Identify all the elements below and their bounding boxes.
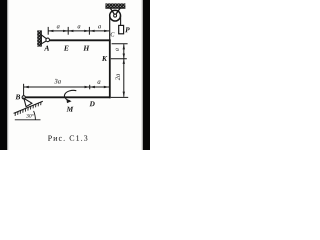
scan gutter right bar — [143, 0, 150, 150]
label B — [15, 94, 20, 99]
pin A circle — [46, 38, 50, 42]
vertical member C-corner — [109, 39, 111, 98]
top beam A-C — [49, 39, 110, 41]
pulley bracket — [110, 8, 115, 15]
hinge circle B — [22, 96, 25, 99]
label 30deg — [26, 114, 33, 118]
rope right (pulley to load) — [120, 16, 122, 26]
labels a a a — [57, 25, 60, 28]
label A — [44, 46, 49, 51]
wall at A (hatched) — [37, 30, 41, 46]
ground horizontal reference line — [15, 119, 41, 121]
label a (bottom) — [98, 80, 101, 83]
ceiling hatched bar — [105, 3, 125, 8]
label P — [125, 27, 130, 32]
pin support A triangle — [41, 35, 48, 44]
roller support triangle at B — [24, 98, 32, 106]
bottom beam B-D-corner — [25, 96, 111, 98]
label D — [89, 101, 94, 106]
30 degree arc — [34, 111, 36, 120]
label 2a (rotated) — [115, 74, 119, 80]
label C — [111, 32, 115, 36]
pulley hub — [114, 14, 117, 17]
bottom dimension line 3a / a — [24, 84, 109, 96]
rope left (pulley to C) — [109, 16, 111, 40]
hatching under incline — [15, 102, 41, 116]
label K — [102, 56, 107, 61]
top dimension arrowheads — [48, 30, 109, 32]
top dimension line with ticks — [48, 27, 109, 35]
label 3a — [54, 79, 61, 84]
scan gutter left bar — [0, 0, 7, 150]
labels E H on top beam — [64, 46, 69, 51]
moment M arc — [64, 90, 76, 101]
pulley wheel — [110, 10, 121, 21]
inclined surface line — [14, 101, 43, 113]
label M — [67, 107, 74, 112]
load P rectangle — [119, 25, 124, 33]
label a (rotated) — [116, 48, 119, 51]
right side dimension a / 2a — [111, 44, 128, 98]
caption — [48, 135, 87, 140]
